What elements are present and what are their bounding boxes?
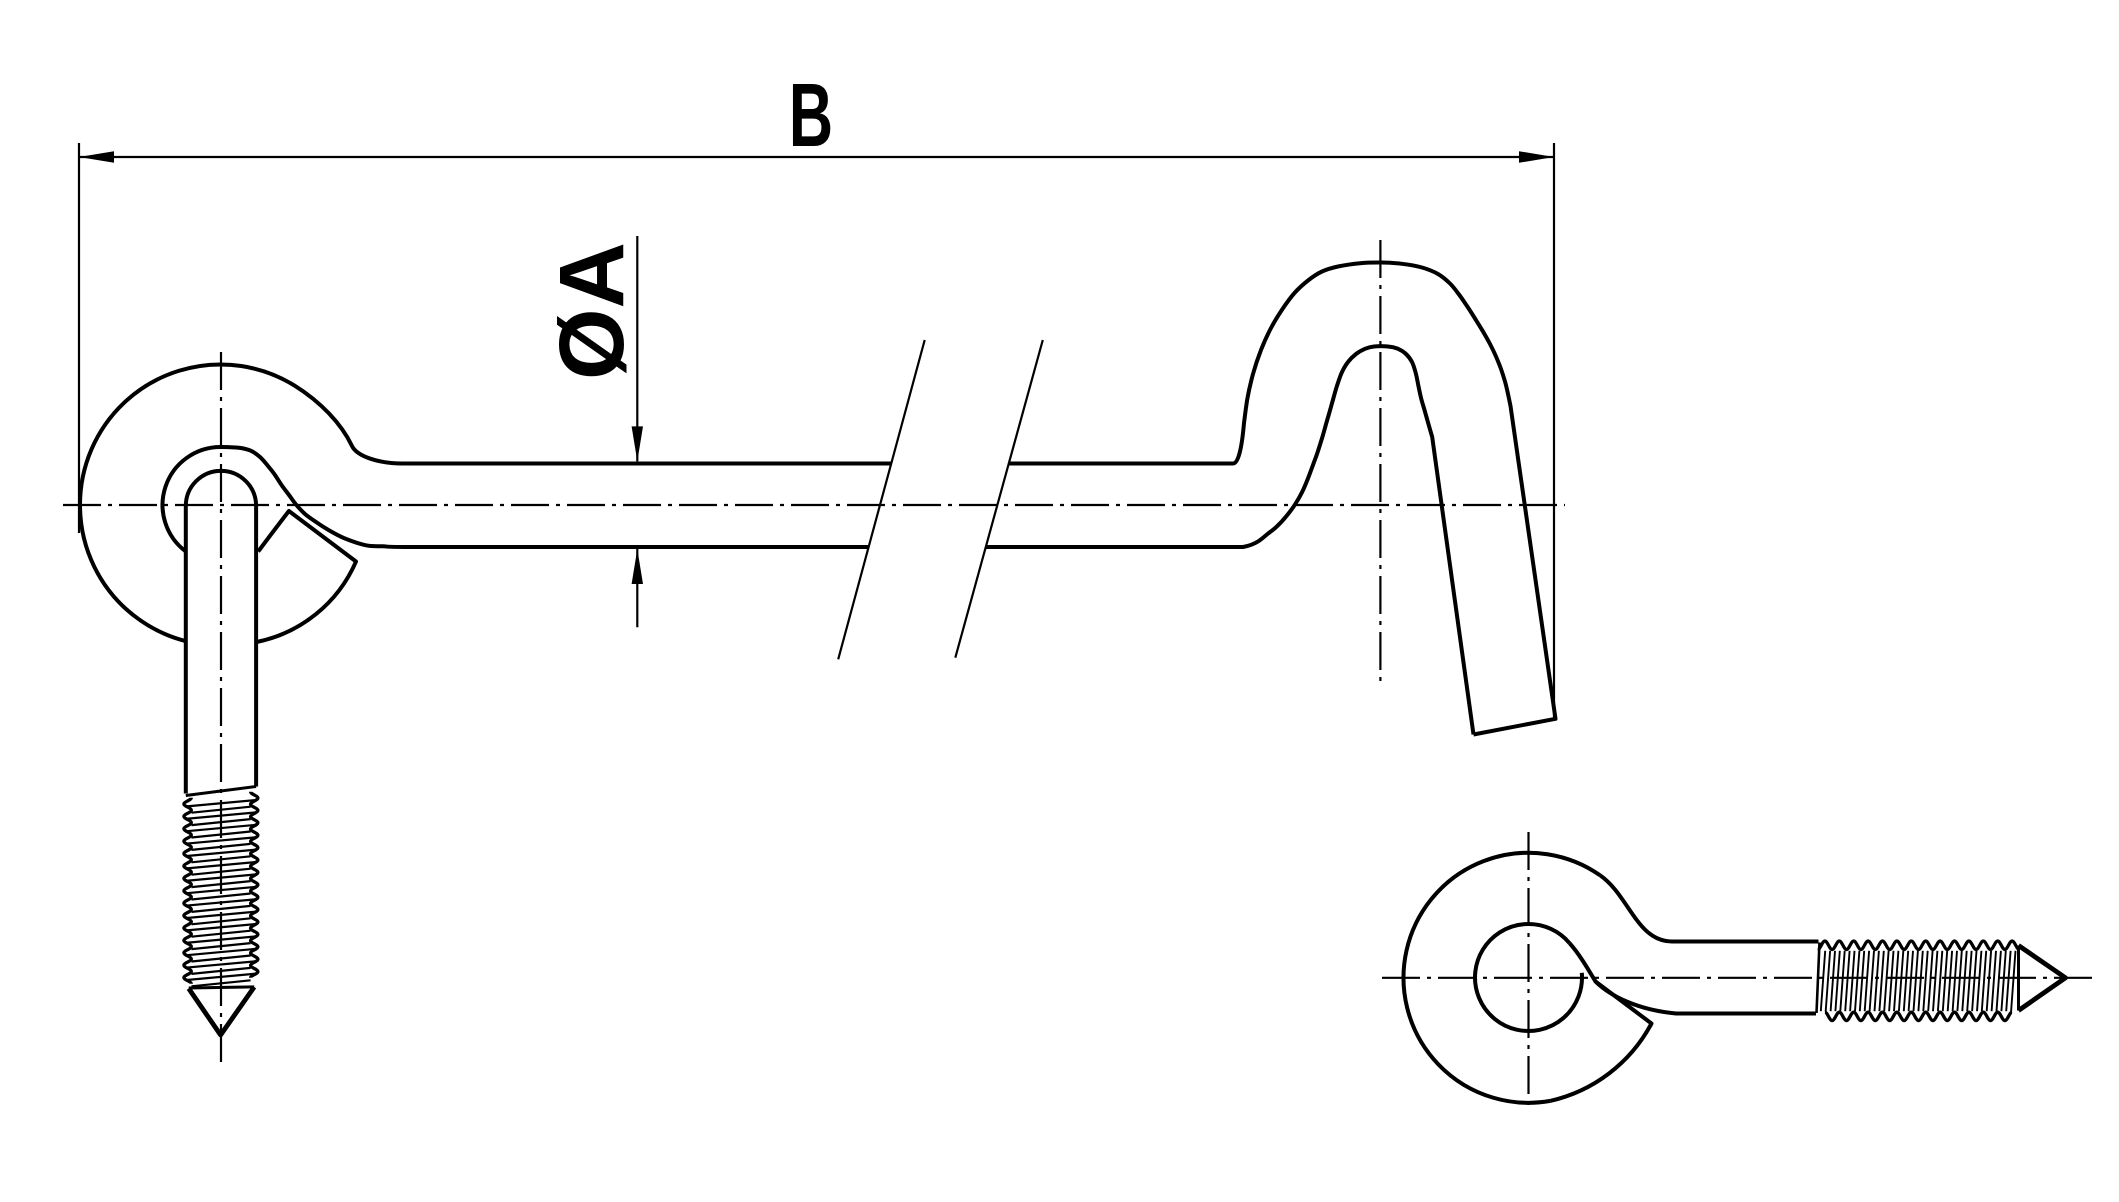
svg-text:ØA: ØA xyxy=(541,242,643,380)
svg-text:B: B xyxy=(789,65,833,166)
